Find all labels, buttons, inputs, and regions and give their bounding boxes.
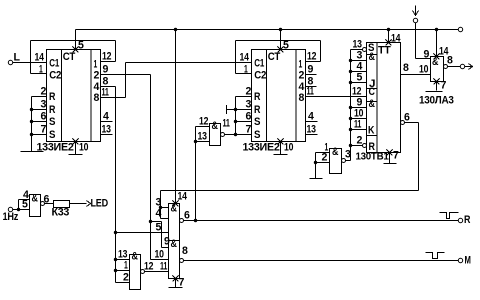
D1.4 output pin 8 to terminal [444,65,448,69]
terminal L [8,60,12,64]
DD2 pin 13 stub [306,134,318,136]
DD3.5 input pin 2 [116,282,130,284]
svg-text:6: 6 [404,112,410,124]
DD2 R/S input rail [236,96,252,98]
wire 1Hz to gate inputs [13,209,30,211]
svg-text:C: C [369,86,375,98]
svg-text:S: S [254,116,260,128]
DD4 pin 13 S-input [363,48,367,52]
svg-text:2: 2 [246,86,252,98]
DD2 pin 5 (power) riser [280,30,282,50]
svg-text:10: 10 [419,64,428,76]
svg-text:5: 5 [156,222,162,234]
svg-text:133ИЕ2: 133ИЕ2 [243,142,280,154]
svg-text:TT: TT [378,45,391,57]
svg-text:&: & [171,238,177,250]
svg-text:CT: CT [268,51,281,63]
svg-text:8: 8 [447,55,453,67]
svg-text:8: 8 [94,92,100,104]
DD4 input pins 9,10,11 [351,107,367,109]
DD3.6 output pin 6 [41,202,45,206]
svg-text:14: 14 [391,33,401,45]
svg-text:7: 7 [246,124,252,136]
svg-text:К33: К33 [52,207,70,219]
svg-text:5: 5 [78,40,84,52]
svg-text:R: R [49,91,55,103]
svg-text:10: 10 [284,142,293,154]
DD3.4 input pin 2 and ground [316,162,330,164]
DD3.2 input pin 9 from Q1 branch [162,247,169,249]
DD3.5 output pin 12 [141,270,145,274]
DD1 pin 10 (gnd) symbol [73,139,79,145]
svg-text:7: 7 [393,150,399,162]
svg-text:130ТВ1: 130ТВ1 [356,152,390,163]
svg-text:11: 11 [354,119,361,131]
svg-text:S: S [254,129,260,141]
svg-text:14: 14 [178,191,188,203]
gate D1.4 130ЛА3 body (&) [431,57,444,82]
gate DD3.3 input pin 12 [196,126,210,128]
DD1 pin 13 stub [101,134,113,136]
terminal 1Hz [8,207,12,211]
gate DD3.1 body (&) [169,204,180,241]
svg-text:9: 9 [103,64,109,76]
DD2 pin 10 (gnd) symbol [278,139,284,145]
svg-text:K: K [368,125,374,137]
svg-text:5: 5 [283,40,289,52]
terminal M with pulse symbol [458,258,462,262]
svg-text:2: 2 [41,86,47,98]
svg-text:C1: C1 [49,58,59,70]
output terminal with arrow [460,64,464,68]
DD2 pin 11 output to DD4 pin 12 (C) [306,96,367,98]
DD3.5 input pin 1 [116,270,130,272]
power rail wire (top) [76,29,459,31]
svg-text:11: 11 [223,118,230,130]
wire L to DD1 pin 14 [13,62,47,64]
svg-text:3: 3 [246,99,252,111]
D1.4 pin 7 (gnd) symbol [434,79,440,85]
DD4 pin 2 R-input [363,144,367,148]
svg-text:3: 3 [41,99,47,111]
wire DD1 pin12 to pin1 loop [31,73,47,75]
svg-text:12: 12 [144,261,153,273]
svg-text:6: 6 [184,210,190,222]
svg-text:8: 8 [403,62,409,74]
svg-text:R: R [464,214,470,226]
DD3.2 output pin 8 to terminal M [180,259,184,263]
resistor K33 [54,201,70,208]
DD2 pin 4 stub [306,121,318,123]
DD3.2 input pin 10 [151,259,169,261]
svg-text:14: 14 [240,52,250,64]
flip-flop DD4 130ТВ1 body [367,43,401,153]
svg-text:&: & [132,251,138,263]
DD3.1 input pin 4 [161,218,169,220]
DD1 pin 5 (power) riser [75,30,77,50]
svg-text:2: 2 [322,152,328,164]
gates pin 14 (power) riser [175,30,177,204]
svg-text:LED: LED [91,198,109,210]
D1.4 pin 14 (power) riser [436,30,438,57]
svg-text:3: 3 [345,149,351,161]
counter DD2 133ИЕ2 body [252,50,306,142]
gate DD3.5 body (&) [130,255,141,290]
svg-text:9: 9 [164,236,170,248]
svg-text:L: L [14,52,21,64]
svg-text:10: 10 [79,142,88,154]
junction dots on Q2 net [114,258,117,261]
svg-text:8: 8 [182,245,188,257]
svg-text:&: & [32,193,38,205]
DD1 R/S input rail to ground [32,96,47,98]
svg-text:7: 7 [441,80,447,92]
svg-text:R: R [254,104,260,116]
svg-text:11: 11 [160,261,167,273]
svg-text:R: R [49,104,55,116]
DD4 input rail from gate DD3.4 [350,50,352,161]
DD4 pin 8 output to DD1.4 pin 10 [401,74,431,76]
wire power terminal to gate D1.4 pin 9 [415,23,417,59]
svg-text:2: 2 [94,70,100,82]
svg-text:13: 13 [102,124,111,136]
svg-text:6: 6 [41,111,47,123]
DD4 pin 14 (power) riser [388,30,390,43]
DD1 pin 4 stub [101,121,113,123]
stub mark left of DD2 pin 3 [227,109,236,111]
svg-text:S: S [49,129,55,141]
DD4 pin 7 (gnd) symbol [387,150,393,156]
svg-text:&: & [369,98,375,110]
gate DD3.3 output pin 11 to DD2 R/S rail [221,133,225,137]
svg-text:R: R [254,91,260,103]
svg-text:C1: C1 [254,58,264,70]
wire resistor to LED arrow [70,203,87,205]
svg-text:6: 6 [246,111,252,123]
DD1 pin 11 output (Q3) to DD2 pin 14 [101,97,126,99]
svg-text:CT: CT [63,51,76,63]
svg-text:5: 5 [22,199,28,211]
svg-text:11: 11 [307,86,314,98]
DD4 pin 6 output loop to gates DD3.1 inputs [401,121,405,125]
svg-text:13: 13 [198,131,207,143]
svg-text:12: 12 [307,51,316,63]
svg-text:8: 8 [299,92,305,104]
DD3.5 input pin 13 [116,259,130,261]
DD1 pin 9 output wire (Q1) [101,74,151,76]
svg-text:12: 12 [199,116,208,128]
DD3.4 input pin 1 [316,152,330,154]
DD3.1 input pin 5 from Q2 net [116,232,169,234]
DD2 pin 9 stub [306,74,317,76]
DD3.4 output pin 3 to DD4 input rail [342,159,346,163]
gate DD3.3 body (&) [210,124,221,146]
svg-text:13: 13 [307,124,316,136]
wire R-net to gate DD3.3 inputs [195,127,197,221]
svg-text:130ЛА3: 130ЛА3 [419,95,454,107]
svg-text:1: 1 [124,260,128,272]
svg-text:2: 2 [299,70,305,82]
junction dots on power rail [174,28,177,31]
svg-text:&: & [332,146,338,158]
gate DD3.2 body (&) [169,241,180,279]
svg-text:2: 2 [123,272,129,284]
terminal +U (top, arrow down) [415,6,417,15]
svg-text:&: & [369,51,375,63]
DD2 pin 8 stub [306,86,317,88]
terminal R with pulse symbol [458,218,462,222]
svg-text:C2: C2 [49,70,61,82]
long vertical wire x=115 (Q2 net) [115,87,117,283]
DD3.1 input pin 3 [161,207,169,209]
wire DD1 pin 9 (Q1) vertical [150,75,152,260]
svg-text:2: 2 [357,135,363,147]
svg-text:5: 5 [357,72,363,84]
svg-text:1Hz: 1Hz [3,211,19,223]
svg-text:S: S [49,116,55,128]
svg-text:7: 7 [179,277,185,289]
svg-text:9: 9 [424,49,430,61]
svg-text:C2: C2 [254,70,266,82]
DD3.2 pin 7 (gnd) symbol [173,276,179,282]
svg-text:10: 10 [155,249,164,261]
counter DD1 133ИЕ2 body [47,50,101,142]
svg-text:12: 12 [102,51,111,63]
DD4 input pins 3,4,5 [351,60,367,62]
DD3.2 input pin 11 from gate DD3.5 output [145,271,169,273]
DD3.1 output pin 6 to terminal R [180,219,184,223]
svg-text:11: 11 [102,87,109,99]
DD1 pin 8 output wire (Q2) to long vertical [101,86,116,88]
svg-text:&: & [212,120,218,132]
terminal top-right [458,27,462,31]
gate DD3.4 body (&) [330,149,342,174]
svg-text:14: 14 [35,52,45,64]
svg-text:7: 7 [41,124,47,136]
svg-text:M: M [465,255,471,267]
svg-text:9: 9 [308,64,314,76]
gate DD3.6 body (&) [30,195,41,217]
gate DD3.3 input pin 13 [196,141,210,143]
wire DD2 pin12 to pin1 loop [306,61,321,63]
